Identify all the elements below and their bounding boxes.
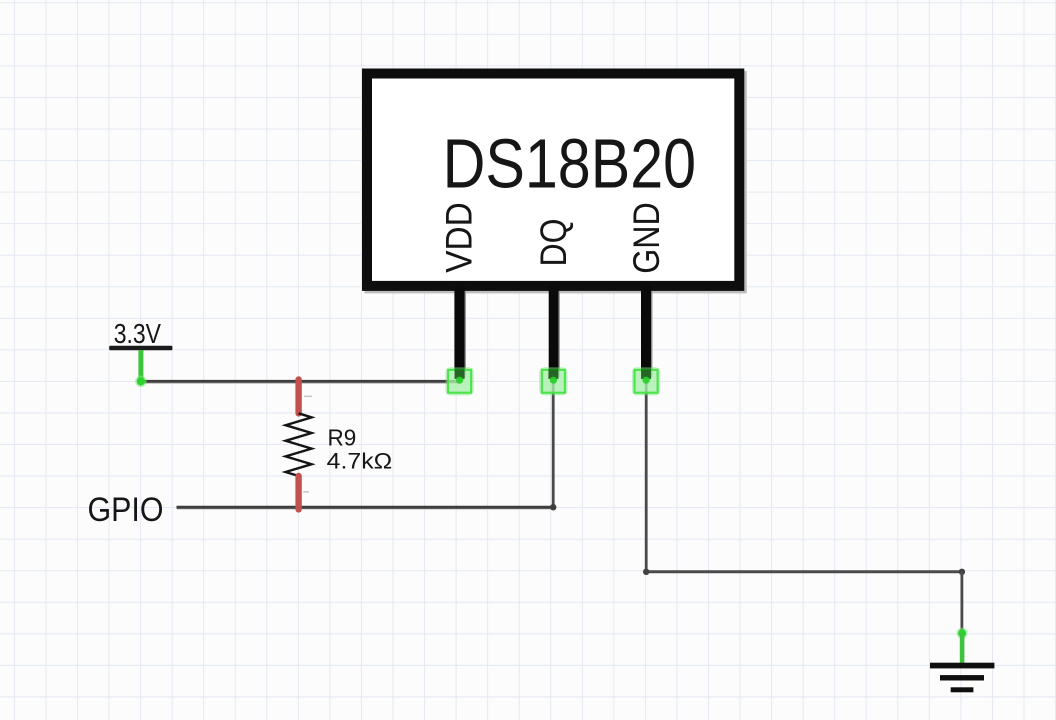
green node dot above ground bbox=[957, 628, 968, 639]
pin DQ stub bbox=[549, 286, 559, 378]
resistor R9 zigzag bbox=[286, 413, 312, 476]
junction dot DQ corner bbox=[550, 504, 556, 510]
wire GND horizontal bbox=[646, 570, 962, 573]
svg-text:VDD: VDD bbox=[438, 202, 480, 273]
ground symbol bar 1 bbox=[930, 663, 994, 669]
resistor R9 bottom lead (red) bbox=[295, 476, 301, 509]
pad GND bbox=[632, 367, 660, 395]
resistor pin mark bottom bbox=[303, 491, 309, 493]
wire GND vertical from pin bbox=[645, 381, 648, 572]
wire green from 3.3V bar bbox=[138, 350, 143, 381]
pin VDD stub bbox=[454, 286, 464, 378]
wire GPIO net horizontal bbox=[177, 506, 554, 509]
ground symbol bar 2 bbox=[940, 675, 984, 680]
svg-text:DQ: DQ bbox=[532, 219, 574, 267]
wire GPIO net horizontal shadow bbox=[177, 508, 552, 510]
pin GND stub bbox=[641, 286, 651, 378]
wire green to ground symbol bbox=[960, 633, 965, 665]
box shadow bbox=[365, 71, 747, 293]
wire VDD net horizontal shadow bbox=[142, 382, 459, 384]
svg-text:DS18B20: DS18B20 bbox=[443, 124, 696, 202]
svg-text:R9: R9 bbox=[328, 425, 357, 451]
pad DQ bbox=[539, 367, 567, 395]
svg-text:GPIO: GPIO bbox=[88, 491, 164, 529]
junction dot GND corner left bbox=[643, 569, 649, 575]
svg-text:4.7kΩ: 4.7kΩ bbox=[327, 448, 393, 473]
wire DQ vertical bbox=[552, 382, 555, 508]
pad VDD bbox=[445, 367, 473, 395]
svg-text:GND: GND bbox=[625, 202, 667, 274]
resistor pin mark top bbox=[304, 396, 312, 398]
wire VDD net horizontal (3.3V to VDD pin) bbox=[141, 380, 460, 383]
resistor R1 top lead (red) bbox=[295, 380, 301, 414]
junction dot GND corner right bbox=[959, 569, 965, 575]
ground symbol bar 3 bbox=[951, 687, 974, 692]
green node dot 3.3V junction bbox=[135, 376, 147, 388]
wire GND vertical down to ground bbox=[961, 572, 964, 632]
power symbol 3.3V bar bbox=[109, 346, 172, 350]
IC box DS18B20 bbox=[367, 74, 739, 286]
svg-text:3.3V: 3.3V bbox=[114, 318, 162, 349]
